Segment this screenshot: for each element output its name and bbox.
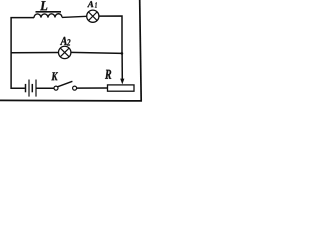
label K (51, 72, 58, 80)
switch K right terminal (73, 86, 77, 90)
battery cell plate short 1 (25, 84, 27, 92)
label A1_sub1 (95, 2, 97, 7)
node junction (121, 52, 124, 55)
wire battery to switch (37, 87, 55, 89)
wire left vertical (11, 18, 34, 89)
battery cell plate tall 2 (35, 80, 37, 97)
label A2_A (60, 37, 67, 45)
label R (105, 70, 111, 79)
inductor L coil (34, 14, 62, 18)
label A1_A (87, 1, 93, 7)
wire middle branch left (11, 52, 58, 54)
wire A1 to top-right corner, down to junction (99, 16, 122, 53)
resistor R body (108, 85, 135, 91)
label A2_sub2 (67, 39, 71, 45)
label L (40, 1, 47, 10)
switch K lever (58, 81, 73, 87)
wire coil to lamp A1 (62, 16, 87, 17)
battery cell plate tall 1 (28, 80, 30, 97)
battery cell plate short 2 (31, 84, 33, 92)
switch K left terminal (54, 86, 58, 90)
wire A2 to junction (71, 52, 122, 53)
wire slider arrow shaft (121, 53, 123, 79)
lamp A1 (87, 10, 99, 22)
inductor L core bar (36, 11, 62, 13)
rheostat slider arrowhead (120, 79, 124, 85)
wire switch to resistor (77, 87, 108, 89)
lamp A2 (58, 46, 70, 58)
